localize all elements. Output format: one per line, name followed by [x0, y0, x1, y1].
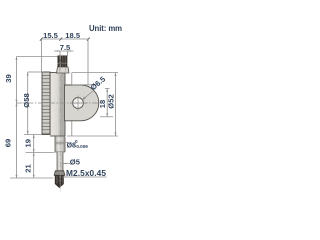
lug	[65, 85, 99, 121]
ext line bezel top	[28, 71, 42, 73]
dim 7.5	[54, 50, 74, 52]
ext line case top	[72, 72, 119, 74]
ext line lug bottom	[100, 116, 113, 118]
dim 15.5 18.5 line	[42, 38, 89, 40]
svg-text:19: 19	[24, 139, 33, 147]
dim 19 21 line	[33, 135, 35, 179]
svg-text:39: 39	[4, 74, 13, 82]
leader O6.5	[83, 91, 94, 100]
spindle	[57, 152, 63, 171]
contact point	[54, 171, 65, 176]
ext line lug back	[87, 39, 89, 85]
bezel rim	[42, 72, 50, 135]
dim O58 line	[27, 72, 29, 135]
lug hole	[73, 98, 84, 109]
label O8 tol	[65, 142, 68, 144]
ext line case bottom	[67, 135, 118, 137]
svg-text:21: 21	[24, 164, 33, 173]
ext line cap top	[17, 56, 58, 58]
clamp collar	[57, 67, 70, 73]
svg-text:Unit: mm: Unit: mm	[89, 24, 122, 33]
ext line left bezel	[41, 39, 43, 72]
ext line stem end	[26, 152, 55, 154]
svg-text:18.5: 18.5	[65, 31, 81, 40]
top cap	[58, 56, 68, 68]
svg-text:M2.5x0.45: M2.5x0.45	[66, 168, 106, 178]
svg-text:Ø52: Ø52	[107, 94, 116, 108]
svg-text:18: 18	[98, 100, 107, 108]
label O5	[64, 163, 71, 165]
svg-text:Ø58: Ø58	[22, 93, 31, 107]
svg-text:7.5: 7.5	[60, 43, 71, 52]
dim O52 line	[115, 73, 117, 137]
ext line bezel bottom	[24, 134, 42, 136]
case back step	[71, 73, 73, 85]
svg-text:Ø5: Ø5	[70, 158, 81, 167]
label M2.5x0.45	[63, 176, 107, 178]
body case	[50, 73, 65, 137]
svg-text:69: 69	[4, 139, 13, 147]
centerline horizontal	[17, 102, 103, 104]
centerline vertical	[59, 54, 61, 192]
dim 18 line	[106, 89, 108, 117]
svg-text:15.5: 15.5	[43, 31, 59, 40]
dim 39 69 line	[16, 57, 18, 179]
svg-text:-0.009: -0.009	[75, 144, 88, 149]
lug top edge line	[72, 84, 97, 86]
stem	[55, 137, 65, 153]
ext line tip	[10, 177, 54, 179]
